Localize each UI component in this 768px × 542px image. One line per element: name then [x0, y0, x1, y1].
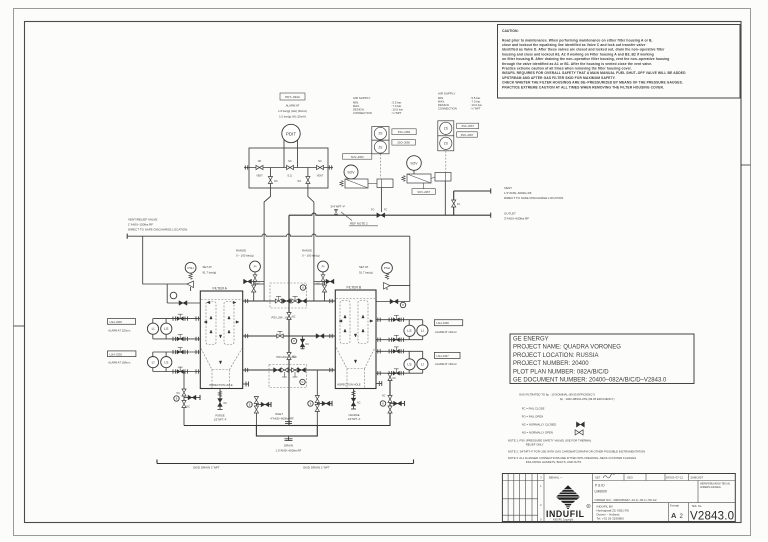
- svg-text:Practice extreme caution of al: Practice extreme caution of all times wh…: [502, 67, 632, 71]
- svg-text:FC = FAIL CLOSE: FC = FAIL CLOSE: [522, 407, 545, 411]
- svg-text:PROJECT NUMBER: 20400: PROJECT NUMBER: 20400: [513, 361, 589, 367]
- transfer check valve: [316, 334, 324, 339]
- manifold center line: [244, 165, 333, 169]
- svg-text:DIRECT TO SAFE DISCHARGE LOCAT: DIRECT TO SAFE DISCHARGE LOCATION: [128, 227, 187, 231]
- svg-text:1.5"ANSI–600lbs.RF: 1.5"ANSI–600lbs.RF: [504, 191, 532, 195]
- inlet label: [270, 412, 294, 421]
- svg-text:CAUTION:: CAUTION:: [502, 29, 519, 33]
- svg-text:LSH–3337: LSH–3337: [436, 354, 449, 358]
- tag LSH-3336: [108, 319, 136, 333]
- svg-text:LS: LS: [164, 360, 169, 364]
- svg-text:LSH–3336: LSH–3336: [110, 320, 123, 324]
- svg-text:CONNECTION: CONNECTION: [438, 107, 457, 111]
- transfer gate valve: [277, 331, 283, 338]
- actuator piston 2060: [377, 179, 393, 188]
- svg-text:through the valve identified a: through the valve identified as A1 or B1…: [502, 62, 652, 66]
- svg-text:SET AT: SET AT: [359, 265, 369, 269]
- notes block: [508, 393, 645, 464]
- svg-text:PI: PI: [254, 265, 257, 269]
- svg-text:close and lockout the equalizi: close and lockout the equalizing line id…: [502, 43, 645, 47]
- svg-text:1.0 bar(g) (H) (10mA): 1.0 bar(g) (H) (10mA): [279, 115, 306, 119]
- svg-text:SKID DRAIN 1"NPT: SKID DRAIN 1"NPT: [303, 466, 330, 470]
- svg-text:NC: NC: [306, 343, 310, 346]
- svg-text:GET: GET: [595, 476, 601, 480]
- level bridle B upper taps: [376, 315, 423, 342]
- svg-text:INSUFIL REQUIRES FOR OVERALL S: INSUFIL REQUIRES FOR OVERALL SAFETY THAT…: [502, 71, 686, 75]
- svg-text:0 – 100 bar(g): 0 – 100 bar(g): [302, 254, 320, 258]
- svg-text:NC = NORMALLY CLOSED: NC = NORMALLY CLOSED: [522, 423, 557, 427]
- svg-text:DIRECT TO SAFE DISCHARGE LOCAT: DIRECT TO SAFE DISCHARGE LOCATION: [504, 196, 563, 200]
- svg-text:3"ANSI–600lbs.RF: 3"ANSI–600lbs.RF: [504, 216, 529, 220]
- svg-text:PROJECT LOCATION: RUSSIA: PROJECT LOCATION: RUSSIA: [513, 353, 598, 359]
- svg-text:NC: NC: [318, 160, 322, 163]
- outlet header line: [289, 213, 491, 218]
- svg-text:INDUFIL: INDUFIL: [546, 509, 585, 519]
- equalize check valve left: [283, 299, 291, 304]
- middle transfer line valve C: [243, 334, 336, 338]
- ref note 2 leader: [341, 212, 378, 226]
- level bridle B lower taps: [376, 347, 423, 375]
- PSV A riser: [143, 236, 187, 284]
- svg-text:AIR SUPPLY: AIR SUPPLY: [438, 92, 455, 96]
- bottom equalizing line: [243, 368, 336, 372]
- svg-text:DAT:03–07–12: DAT:03–07–12: [666, 476, 684, 480]
- drain label: [276, 444, 302, 453]
- svg-text:NC: NC: [257, 283, 261, 286]
- PSV B riser: [390, 236, 410, 285]
- svg-text:LI: LI: [152, 327, 155, 331]
- svg-text:D: D: [302, 381, 304, 384]
- svg-text:GEO: GEO: [627, 476, 633, 480]
- manifold internal tap lines: [270, 148, 308, 188]
- level gauge LS LI B upper: [404, 325, 428, 337]
- filter A vent valve A1: [244, 279, 265, 301]
- drain collection line right: [317, 373, 390, 425]
- filter housing A: [200, 291, 242, 389]
- tag ZSO-2067: [457, 132, 478, 137]
- PI B gauge valve: [314, 272, 325, 284]
- limit switch stack ZS 2067: [438, 121, 454, 151]
- svg-text:SAMCHST: SAMCHST: [691, 476, 704, 480]
- svg-text:INCLUDING GASKETS, BOLTS, AND: INCLUDING GASKETS, BOLTS, AND NUTS: [526, 460, 582, 464]
- header riser B2: [308, 370, 332, 426]
- gauge PI B: [318, 261, 329, 272]
- svg-text:ALARM AT: ALARM AT: [286, 104, 300, 108]
- svg-text:1"ANSI–150lbs.RF: 1"ANSI–150lbs.RF: [128, 223, 153, 227]
- filter B inspection hole: [337, 381, 382, 387]
- svg-text:ZSC–2067: ZSC–2067: [461, 124, 474, 128]
- drain header: [256, 426, 317, 437]
- actuator piston 2067: [435, 173, 451, 182]
- filter A inspection hole: [209, 382, 249, 388]
- svg-text:Read prior to maintenance. Whe: Read prior to maintenance. When performi…: [502, 38, 653, 42]
- svg-text:FC: FC: [457, 203, 460, 206]
- svg-text:PRACTICE EXTREME CAUTION AT AL: PRACTICE EXTREME CAUTION AT ALL TIMES WH…: [502, 85, 664, 89]
- header row texts: [549, 476, 704, 480]
- svg-text:SOV: SOV: [410, 162, 418, 166]
- gauge PI A: [250, 261, 261, 272]
- svg-text:NC: NC: [288, 160, 292, 163]
- svg-text:identified as Valve D. After t: identified as Valve D. After these valve…: [502, 48, 665, 52]
- equalize gate valve right: [292, 296, 298, 303]
- PI A range note: [236, 249, 254, 258]
- svg-text:CHECK WHETER THE FILTER HOUSIN: CHECK WHETER THE FILTER HOUSINGS ARE DE–…: [502, 81, 683, 85]
- svg-text:INSPECTION HOLE: INSPECTION HOLE: [337, 383, 361, 387]
- format cell: [670, 505, 684, 521]
- equalize dashed enclosure: [270, 283, 307, 308]
- inlet flange on riser: [285, 422, 292, 424]
- tag ZSO-2060: [392, 140, 415, 146]
- impulse tap lines PDIT to manifold: [284, 140, 298, 148]
- svg-text:TEK. No.: TEK. No.: [692, 504, 703, 508]
- svg-text:E.Q.: E.Q.: [288, 175, 293, 178]
- svg-text:PDIT: PDIT: [286, 132, 297, 137]
- svg-text:on filter housing B. After dra: on filter housing B. After draining the …: [502, 57, 669, 61]
- PSH B setpoint: [359, 265, 373, 275]
- instrument PDIT: [282, 124, 300, 142]
- border centre tick left: [14, 325, 25, 327]
- svg-text:ALARM AT 120mm: ALARM AT 120mm: [435, 330, 457, 334]
- svg-text:P & ID: P & ID: [595, 484, 605, 488]
- top equalizing line valve C: [243, 299, 336, 303]
- tag SOV-2067: [412, 183, 435, 194]
- valve D balloon: [291, 338, 296, 343]
- svg-text:NOTE 2: 3/4"NPT–F FOR USE WITH: NOTE 2: 3/4"NPT–F FOR USE WITH GAS CHROM…: [508, 449, 645, 453]
- filter B internals: [336, 299, 375, 389]
- outlet label: [504, 212, 529, 221]
- svg-text:VENT/RELIEF VALVE: VENT/RELIEF VALVE: [128, 218, 157, 222]
- svg-text:: ¼"NPT: : ¼"NPT: [391, 111, 402, 115]
- solenoid valve body 2060: [340, 179, 377, 188]
- nozzle flanges filter B: [378, 318, 380, 376]
- svg-text:ZS: ZS: [378, 132, 382, 136]
- svg-text:INSPECTION HOLE: INSPECTION HOLE: [209, 383, 233, 387]
- signal line ZS stack to valve 2060: [379, 154, 381, 178]
- level bridle A lower taps: [153, 348, 201, 374]
- level gauge LS LI B lower: [404, 359, 428, 371]
- GE project box: [510, 334, 694, 384]
- drain valve A3 drop: [174, 372, 200, 426]
- svg-text:RELIEF ONLY: RELIEF ONLY: [526, 442, 544, 446]
- svg-text:OUTLET: OUTLET: [504, 212, 516, 216]
- tag ZSC-2067: [457, 123, 479, 128]
- revision grid: [502, 474, 544, 522]
- svg-text:SOV: SOV: [347, 171, 355, 175]
- svg-text:UPSTREAM AND AFTER GAS FILTER: UPSTREAM AND AFTER GAS FILTER SKID FOR M…: [502, 76, 616, 80]
- impulse line B down from manifold: [308, 188, 314, 301]
- svg-text:ANDERS AANGEG.: ANDERS AANGEG.: [700, 486, 722, 489]
- svg-text:: ¼"NPT: : ¼"NPT: [470, 107, 481, 111]
- svg-text:LI: LI: [152, 360, 155, 364]
- svg-text:GE ENERGY: GE ENERGY: [513, 337, 549, 343]
- svg-text:D: D: [293, 340, 295, 343]
- skid drain labels: [193, 466, 330, 470]
- project id cell: [593, 481, 736, 503]
- svg-text:LSH–3338: LSH–3338: [436, 321, 449, 325]
- svg-text:FILTER A: FILTER A: [213, 287, 228, 291]
- signal line ZS stack to valve 2067: [445, 151, 447, 172]
- svg-text:V2843.0: V2843.0: [690, 511, 734, 523]
- svg-text:NC: NC: [292, 356, 296, 359]
- charge drop filter B: [351, 389, 361, 410]
- svg-text:SOV–2067: SOV–2067: [417, 190, 430, 194]
- svg-text:LI: LI: [421, 362, 424, 366]
- svg-text:PSH: PSH: [384, 266, 390, 270]
- solenoid SOV 2060: [344, 165, 358, 179]
- svg-text:PROJECT NAME: QUADRA VORONE: PROJECT NAME: QUADRA VORONEG: [513, 345, 621, 351]
- svg-text:3/4"NPT–F: 3/4"NPT–F: [331, 205, 346, 209]
- skid drain line: [157, 460, 414, 464]
- vent valve branch B1: [376, 286, 410, 308]
- vent relief label: [128, 218, 187, 232]
- level bridle A upper taps: [153, 314, 201, 341]
- svg-text:DRAIN: DRAIN: [284, 444, 293, 448]
- svg-text:NC: NC: [393, 377, 397, 380]
- filter A internals: [201, 300, 242, 389]
- level gauge LI LS A upper: [147, 323, 172, 334]
- tag SOV-2060: [343, 154, 372, 160]
- main shut-off valve FO/FC: [371, 209, 387, 218]
- svg-text:RANGE: RANGE: [302, 249, 312, 253]
- svg-text:PURGE: PURGE: [215, 414, 224, 418]
- svg-text:ZSO–2067: ZSO–2067: [461, 133, 474, 137]
- PI A gauge valve: [253, 272, 264, 284]
- valve drop 2067 to outlet: [444, 181, 446, 215]
- filter B vent valve B1: [314, 279, 334, 301]
- header riser A2: [247, 396, 271, 426]
- svg-text:CHARGE: CHARGE: [348, 413, 359, 417]
- address cell: [597, 503, 689, 522]
- svg-text:LS: LS: [407, 363, 412, 367]
- caution paragraph: [502, 38, 686, 89]
- svg-text:NC: NC: [177, 392, 181, 395]
- drawing number cell: [690, 504, 734, 523]
- PI B range note: [302, 249, 320, 258]
- svg-text:ALARM AT 150mm: ALARM AT 150mm: [435, 362, 457, 366]
- legend NC symbol: [576, 422, 584, 427]
- svg-text:ZSO–2060: ZSO–2060: [397, 141, 410, 145]
- drain collection line left: [184, 425, 256, 427]
- manifold valve vent left NO: [256, 160, 263, 178]
- level gauge LI LS A lower: [147, 357, 172, 368]
- PDI tap valve lower: [287, 353, 296, 360]
- instrument PSH B: [382, 263, 393, 274]
- title header row: [593, 474, 736, 522]
- svg-text:CONNECTION: CONNECTION: [353, 111, 372, 115]
- border centre tick right: [741, 164, 751, 166]
- tag ZSC-2060: [392, 129, 416, 135]
- svg-text:NO = NORMALLY OPEN: NO = NORMALLY OPEN: [522, 431, 553, 435]
- svg-text:FC: FC: [384, 209, 387, 212]
- drain stub: [285, 436, 293, 441]
- equalize gate valve left: [275, 296, 281, 303]
- svg-text:NC: NC: [187, 406, 191, 409]
- svg-text:91.7 bar(g): 91.7 bar(g): [359, 271, 373, 275]
- svg-text:ALARM AT 158mm: ALARM AT 158mm: [108, 361, 130, 365]
- svg-text:SET AT: SET AT: [203, 265, 213, 269]
- svg-text:4"ANSI–600lbs/RF: 4"ANSI–600lbs/RF: [270, 417, 294, 421]
- svg-text:1.6 bar(g) (HH) (20mA): 1.6 bar(g) (HH) (20mA): [278, 109, 307, 113]
- title block outline: [502, 474, 735, 522]
- svg-text:0 – 100 bar(g): 0 – 100 bar(g): [236, 254, 254, 258]
- manifold block valve right NO: [298, 177, 311, 184]
- transfer drain stub: [300, 336, 309, 349]
- svg-text:VENT: VENT: [504, 186, 512, 190]
- svg-text:PDT–333A: PDT–333A: [285, 95, 300, 99]
- instrument tag PDT-333A: [280, 93, 305, 100]
- vent 1.5in line: [454, 188, 491, 215]
- svg-text:FO = FAIL OPEN: FO = FAIL OPEN: [522, 415, 543, 419]
- relief valve PSV A: [187, 274, 194, 292]
- svg-text:VENT: VENT: [256, 175, 263, 178]
- nozzle flanges filter A: [196, 317, 198, 374]
- remark cell: [700, 483, 730, 490]
- vent relief header: [127, 234, 410, 239]
- svg-text:1.5"ANSI–600lbs.RF: 1.5"ANSI–600lbs.RF: [276, 449, 302, 453]
- actuated valve drop 2060: [380, 188, 382, 213]
- svg-text:1/2"NPT–F: 1/2"NPT–F: [214, 418, 227, 422]
- svg-text:ZS: ZS: [444, 127, 448, 131]
- bottom equalize check right: [298, 368, 306, 373]
- svg-text:91.7 bar(g): 91.7 bar(g): [203, 271, 217, 275]
- svg-text:PI: PI: [322, 265, 325, 269]
- purge drop filter A: [218, 389, 228, 410]
- bottom equalize check left: [274, 368, 282, 373]
- valve B balloon: [300, 285, 305, 290]
- svg-text:1/2"NPT–F: 1/2"NPT–F: [348, 417, 361, 421]
- svg-text:NO: NO: [274, 180, 278, 183]
- vent label: [504, 186, 563, 200]
- svg-text:ALARM AT 120mm: ALARM AT 120mm: [108, 328, 130, 332]
- svg-text:Formaat: Formaat: [670, 505, 679, 508]
- bottom equalize dashed enclosure: [269, 365, 307, 388]
- svg-text:INLET: INLET: [275, 412, 283, 416]
- svg-text:LS: LS: [407, 329, 412, 333]
- tag LSH-3338: [434, 320, 462, 334]
- legend NO symbol: [575, 430, 583, 435]
- svg-text:6μ : 1000 ABSOLUTE (99.95 EF: 6μ : 1000 ABSOLUTE (99.95 EFFICIENCY): [560, 397, 615, 401]
- manifold valve vent right NC: [317, 160, 324, 178]
- svg-text:ZS: ZS: [444, 142, 448, 146]
- air supply table right: [438, 92, 482, 111]
- PDI tap valve upper: [287, 313, 296, 320]
- manifold valve equalize NC: [287, 160, 294, 178]
- revision numbers: [540, 476, 542, 522]
- svg-text:ZS: ZS: [378, 145, 382, 149]
- vent valve branch A: [167, 284, 200, 305]
- svg-text:SKID DRAIN 1"NPT: SKID DRAIN 1"NPT: [193, 466, 220, 470]
- svg-text:NO: NO: [298, 180, 302, 183]
- svg-text:NC: NC: [382, 395, 386, 398]
- PSH A setpoint: [203, 265, 217, 275]
- svg-text:LS: LS: [164, 327, 169, 331]
- registered mark: [587, 504, 591, 508]
- main inlet riser: [288, 215, 290, 425]
- svg-text:RANGE: RANGE: [236, 249, 246, 253]
- svg-text:PSH: PSH: [188, 266, 194, 270]
- svg-text:LI: LI: [421, 329, 424, 333]
- tag LSH-3335: [108, 351, 136, 365]
- tag LSH-3337: [434, 352, 460, 366]
- svg-text:FILTER B: FILTER B: [347, 286, 362, 290]
- filter housing B: [335, 290, 376, 389]
- svg-text:Tel. +31 26 3190800: Tel. +31 26 3190800: [597, 517, 625, 521]
- svg-text:NC: NC: [292, 316, 296, 319]
- limit switch stack ZS 2060: [372, 127, 389, 154]
- manifold block valve left NO: [268, 177, 277, 184]
- svg-text:VENT: VENT: [317, 175, 324, 178]
- caution text box: [498, 25, 741, 99]
- equalize check valve right: [299, 299, 307, 304]
- svg-text:AIR SUPPLY: AIR SUPPLY: [353, 96, 370, 100]
- impulse line A down from manifold: [264, 188, 270, 301]
- charge label: [348, 413, 361, 421]
- purge label: [214, 414, 227, 422]
- bottom equalize gate left: [281, 368, 288, 377]
- valve D balloon bottom: [300, 379, 305, 384]
- svg-text:NOTE 1: PSV (PRESSURE SAFETY V: NOTE 1: PSV (PRESSURE SAFETY VALVE) USE …: [508, 439, 592, 443]
- solenoid valve body 2067: [402, 170, 435, 183]
- svg-text:A: A: [671, 511, 677, 520]
- drain valve B3 cluster: [380, 374, 404, 414]
- svg-text:NC: NC: [317, 283, 321, 286]
- vent block valve: [452, 200, 461, 207]
- svg-text:BEHAAL —: BEHAAL —: [549, 476, 563, 480]
- INDUFIL diamond logo: [556, 485, 579, 509]
- svg-text:R: R: [588, 505, 590, 508]
- svg-text:SOV–2060: SOV–2060: [351, 155, 364, 159]
- svg-text:ORDER NO.: 4000435947–10.1/–3: ORDER NO.: 4000435947–10.1/–30.1/–50.1/2: [595, 498, 657, 502]
- svg-text:NO: NO: [258, 160, 262, 163]
- svg-text:FO: FO: [371, 209, 374, 212]
- svg-text:NC: NC: [357, 402, 361, 405]
- svg-text:INDUFIL Copyright: INDUFIL Copyright: [553, 519, 573, 522]
- svg-text:LSH–3335: LSH–3335: [110, 352, 123, 356]
- svg-text:REF NOTE 2: REF NOTE 2: [350, 222, 368, 226]
- 3-valve manifold box: [249, 148, 328, 188]
- svg-text:ZSC–2060: ZSC–2060: [398, 130, 411, 134]
- bottom equalize gate right: [292, 368, 299, 377]
- svg-text:LM6000: LM6000: [595, 490, 607, 494]
- svg-text:GE DOCUMENT NUMBER: 20400–0: GE DOCUMENT NUMBER: 20400–082A/B/C/D–V28…: [513, 378, 667, 384]
- approval signature: [603, 474, 615, 478]
- PDT alarm note: [278, 104, 307, 119]
- solenoid SOV 2067: [407, 156, 422, 171]
- sample tap 3/4 NPT: [334, 209, 338, 215]
- instrument PSH A: [185, 262, 196, 273]
- svg-text:NC: NC: [224, 402, 228, 405]
- relief valve PSV B: [384, 274, 391, 291]
- svg-text:housing and close and lockout: housing and close and lockout A3, A2 if …: [502, 52, 654, 56]
- air supply table left: [353, 96, 403, 115]
- svg-text:PLOT PLAN NUMBER: 082A/B/C/: PLOT PLAN NUMBER: 082A/B/C/D: [513, 369, 609, 375]
